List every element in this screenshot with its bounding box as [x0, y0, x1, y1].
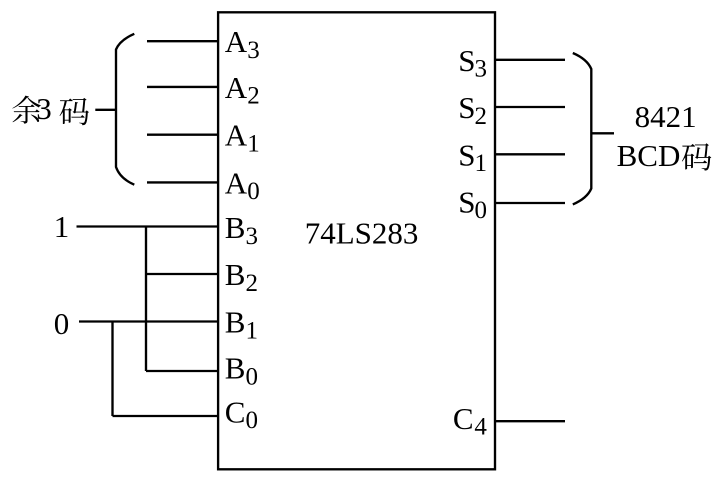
wire S3 output — [495, 59, 565, 61]
svg-text:8421: 8421 — [635, 99, 697, 134]
wire S0 output — [495, 202, 565, 204]
IC body U1 74LS283 rectangle — [218, 12, 495, 469]
wire C0 input — [113, 415, 220, 417]
label char 余 of 余3码 — [12, 96, 40, 124]
svg-text:C4: C4 — [453, 401, 487, 441]
wire A1 input — [147, 134, 219, 136]
wire vertical bus tying B3-B2-B0 to constant 1 — [145, 227, 147, 372]
wire vertical bus tying B1-C0 to constant 0 — [111, 322, 113, 417]
wire B3 input from constant 1 — [77, 225, 220, 227]
wire A0 input — [147, 181, 219, 183]
svg-text:A2: A2 — [225, 70, 260, 110]
svg-text:A3: A3 — [225, 24, 260, 64]
brace tick to label 8421 BCD码 — [591, 132, 614, 134]
svg-text:C0: C0 — [225, 394, 258, 434]
svg-text:A1: A1 — [225, 118, 260, 158]
svg-text:S1: S1 — [458, 137, 487, 177]
svg-text:B0: B0 — [225, 351, 258, 391]
svg-text:A0: A0 — [225, 165, 260, 205]
svg-text:74LS283: 74LS283 — [305, 215, 419, 250]
brace grouping A inputs (excess-3 code) — [116, 34, 134, 185]
wire B1 input from constant 0 — [79, 320, 219, 322]
svg-text:B3: B3 — [225, 210, 258, 250]
wire A3 input — [147, 40, 219, 42]
wire A2 input — [147, 86, 219, 88]
brace tick to label 余3码 — [95, 109, 116, 111]
svg-text:0: 0 — [54, 306, 70, 341]
svg-text:BCD: BCD — [617, 138, 681, 173]
wire S2 output — [495, 106, 565, 108]
svg-text:B2: B2 — [225, 257, 258, 297]
label char 码 of BCD码 — [682, 143, 711, 170]
svg-text:B1: B1 — [225, 305, 258, 345]
wire S1 output — [495, 153, 565, 155]
svg-text:S3: S3 — [458, 43, 487, 83]
wire B2 input — [146, 273, 219, 275]
svg-text:S2: S2 — [458, 90, 487, 130]
wire C4 output — [495, 420, 565, 422]
wire B0 input — [146, 370, 219, 372]
brace grouping S outputs (8421 BCD code) — [573, 53, 592, 204]
svg-text:1: 1 — [54, 209, 70, 244]
label char 码 of 余3码 — [60, 98, 89, 125]
svg-text:3: 3 — [36, 91, 52, 126]
svg-text:S0: S0 — [458, 184, 487, 224]
